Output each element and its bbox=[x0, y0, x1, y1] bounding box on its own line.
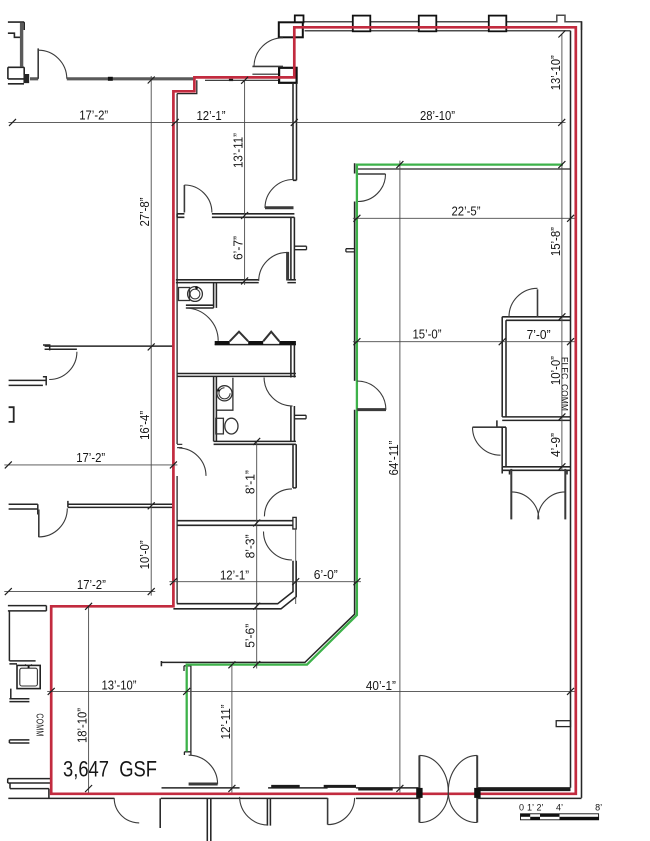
partition wall face left of green riser bbox=[161, 163, 354, 666]
bathroom B bottom wall bbox=[214, 441, 296, 444]
svg-text:13’-10”: 13’-10” bbox=[102, 678, 137, 693]
svg-text:4’-9”: 4’-9” bbox=[548, 433, 563, 457]
dim row1 line 17-2 / 12-1 / 28-10 bbox=[9, 121, 566, 123]
door G1 arc bbox=[358, 174, 386, 202]
svg-text:4’: 4’ bbox=[556, 803, 563, 813]
elec door arc bbox=[509, 288, 538, 317]
dim row3a line 12-1 / 6-0 bbox=[169, 581, 361, 583]
butterfly arc top-left bbox=[419, 755, 448, 791]
room 4-9 bottom wall bbox=[502, 467, 570, 475]
door G2 arc bbox=[357, 381, 386, 410]
column bracket mid-left bbox=[9, 407, 14, 422]
door left-room2 leaf bbox=[38, 510, 40, 538]
svg-text:6’-0”: 6’-0” bbox=[314, 567, 338, 582]
door E leaf bbox=[473, 426, 501, 428]
dim row2 line 17-2 bbox=[4, 464, 177, 466]
wall right of bathrooms bbox=[291, 345, 295, 442]
dim col 64-11 chain bbox=[399, 161, 401, 793]
svg-text:17’-2”: 17’-2” bbox=[76, 450, 105, 465]
dim col 13-11 6-7 chain bbox=[244, 80, 246, 285]
elec room top wall bbox=[502, 317, 570, 324]
tee stub right y247 bbox=[294, 246, 306, 250]
door C jamb bbox=[177, 444, 182, 447]
green stub wall black faces bbox=[184, 666, 191, 756]
butterfly door right leaf bbox=[476, 755, 478, 822]
wall H2 room1 bottom bbox=[177, 214, 294, 218]
svg-text:7’-0”: 7’-0” bbox=[527, 327, 551, 342]
left wall y505 segment a bbox=[9, 504, 38, 514]
dim row3b line 17-2 bbox=[4, 591, 155, 593]
svg-text:18’-10”: 18’-10” bbox=[75, 708, 90, 743]
svg-text:1’: 1’ bbox=[527, 803, 534, 813]
bifold chevron left bbox=[230, 332, 249, 342]
green stub door arc bbox=[189, 755, 218, 784]
bifold chevron right bbox=[263, 332, 279, 342]
double door F right leaf bbox=[564, 469, 566, 520]
wall right of room D lower with chamfer bbox=[173, 561, 296, 609]
closet jamb blocks bbox=[215, 341, 296, 345]
neighbor wall stub y741 bbox=[9, 740, 29, 743]
toilet B bowl bbox=[225, 418, 238, 434]
svg-text:ELEC COMM: ELEC COMM bbox=[558, 357, 569, 411]
left room lower wall y383 bbox=[9, 377, 47, 386]
scale bar outline bbox=[521, 814, 599, 820]
door room2-bottom leaf bbox=[286, 252, 289, 281]
left bottom wall y780 bbox=[8, 779, 51, 783]
svg-text:13’-11”: 13’-11” bbox=[231, 133, 246, 168]
bathroom B left wall bbox=[214, 376, 217, 441]
top window wall outer line bbox=[295, 15, 582, 30]
svg-text:13’-10”: 13’-10” bbox=[548, 55, 563, 90]
left wall y505 segment b bbox=[68, 501, 173, 508]
door U arc bbox=[265, 180, 294, 209]
wall face under green top run bbox=[357, 168, 570, 170]
butterfly hinge jamb left bbox=[416, 788, 422, 798]
svg-text:27’-8”: 27’-8” bbox=[137, 198, 152, 227]
pilaster column face bbox=[20, 23, 23, 66]
tee stub right y417 bbox=[294, 415, 306, 419]
door U leaf room2 bbox=[265, 206, 294, 209]
svg-text:12’-1”: 12’-1” bbox=[197, 108, 226, 123]
red lease boundary outline bbox=[51, 27, 576, 794]
svg-text:12’-1”: 12’-1” bbox=[220, 567, 249, 582]
sink B dot bbox=[217, 389, 219, 391]
butterfly arc top-right bbox=[448, 755, 477, 791]
dimension tick marks bbox=[5, 31, 574, 793]
butterfly hinge jamb right bbox=[474, 788, 480, 798]
sink B counter bbox=[216, 378, 233, 411]
svg-text:3,647 GSF: 3,647 GSF bbox=[63, 757, 157, 782]
dim row 22-5 line bbox=[353, 217, 575, 219]
neighbor wall x10 sink run bbox=[9, 689, 29, 702]
door G1 leaf at partition top bbox=[358, 173, 386, 175]
door G2 leaf bbox=[357, 408, 386, 411]
entry door lower jamb bbox=[279, 68, 297, 83]
toilet B tank bbox=[216, 418, 224, 434]
wall H3 room2 bottom bbox=[176, 280, 296, 283]
bottom exterior wall outer line bbox=[8, 797, 581, 799]
elec room mid wall bbox=[502, 417, 570, 421]
mop sink COMM room bbox=[17, 665, 40, 688]
thin wall face below red top-mid wall bbox=[205, 74, 293, 80]
svg-text:2’: 2’ bbox=[536, 803, 543, 813]
window mullion 1 bbox=[353, 16, 371, 32]
bottom door 3 arc bbox=[328, 798, 355, 825]
door D2 arc bbox=[264, 532, 293, 561]
door strike tick near entry bbox=[229, 79, 233, 81]
svg-text:COMM: COMM bbox=[34, 713, 45, 736]
door top-left exterior leaf bbox=[37, 48, 39, 78]
right exterior wall inner line bbox=[570, 31, 572, 788]
door left-room arc bbox=[49, 352, 77, 380]
closet wall with bifold chevrons bbox=[215, 344, 296, 346]
double door F right arc bbox=[538, 492, 566, 520]
dim row 15-0 / 7-0 line bbox=[353, 341, 575, 343]
toilet room A right wall bbox=[214, 283, 217, 308]
left exterior wall y607 bbox=[8, 606, 47, 611]
dim col 8-1 8-3 5-6 chain bbox=[256, 441, 258, 668]
door room1 arc bbox=[184, 185, 212, 213]
svg-text:12’-11”: 12’-11” bbox=[218, 704, 233, 739]
svg-text:8’-3”: 8’-3” bbox=[243, 534, 258, 558]
elec door jamb step bbox=[497, 420, 506, 427]
right wall blocking stub bbox=[556, 721, 570, 727]
room 4-9 left wall bbox=[502, 427, 506, 467]
dim col 18-10 chain bbox=[88, 606, 90, 792]
entry door arc bbox=[254, 38, 283, 67]
svg-text:8’: 8’ bbox=[595, 803, 602, 813]
walls below bottom wall bbox=[160, 798, 270, 841]
door room1 leaf bbox=[183, 185, 185, 213]
svg-text:15’-8”: 15’-8” bbox=[548, 227, 563, 256]
wall H8 end cap bbox=[293, 517, 296, 529]
svg-text:22’-5”: 22’-5” bbox=[452, 203, 481, 218]
double door F left leaf bbox=[510, 469, 512, 520]
svg-text:64’-11”: 64’-11” bbox=[386, 441, 401, 476]
black companion inside red jog bbox=[177, 80, 197, 93]
window mullion corner post bbox=[295, 15, 304, 22]
wall right of room D upper bbox=[293, 444, 296, 488]
left wall face along red bbox=[176, 94, 178, 604]
top wall left section (gray) bbox=[30, 77, 194, 80]
door left-room2 arc bbox=[39, 508, 68, 537]
svg-text:15’-0”: 15’-0” bbox=[413, 327, 442, 342]
bottom wall header segments bbox=[271, 786, 570, 789]
double door F left arc bbox=[511, 492, 539, 520]
svg-text:28’-10”: 28’-10” bbox=[420, 108, 455, 123]
dim col 12-11 chain bbox=[231, 665, 233, 793]
door toilet-room arc bbox=[186, 308, 218, 341]
wall right of room2 bbox=[291, 217, 295, 280]
window mullion 2 bbox=[419, 16, 437, 32]
dim col left chain 27-8 16-4 10-0 bbox=[150, 76, 152, 596]
sink B bowl bbox=[217, 386, 232, 401]
green stub door leaf bbox=[189, 783, 218, 786]
wall below entry door bbox=[293, 83, 297, 181]
svg-text:40’-1”: 40’-1” bbox=[366, 678, 396, 693]
bottom exterior wall inner line bbox=[162, 787, 571, 789]
elec door leaf bbox=[537, 289, 539, 317]
window mullion 3 bbox=[489, 16, 507, 32]
dim row4 line 13-10 / 40-1 bbox=[47, 690, 574, 692]
svg-text:17’-2”: 17’-2” bbox=[79, 108, 108, 123]
bottom-left room wall y788 bbox=[10, 783, 49, 798]
butterfly arc bottom-right bbox=[448, 792, 477, 823]
door top-left exterior arc bbox=[38, 50, 67, 79]
bottom door 2 arc bbox=[240, 797, 269, 825]
toilet A flush dot bbox=[195, 286, 198, 289]
svg-text:16’-4”: 16’-4” bbox=[137, 411, 152, 440]
toilet A bowl circle bbox=[188, 287, 203, 302]
wall H8 between 8-1 and 8-3 bbox=[177, 521, 293, 526]
door room2-bottom arc bbox=[259, 252, 288, 281]
bathroom B top wall bbox=[177, 374, 296, 377]
svg-text:0: 0 bbox=[519, 803, 524, 813]
wall joint tick on top wall bbox=[108, 77, 113, 81]
svg-text:17’-2”: 17’-2” bbox=[77, 577, 106, 592]
elec room left wall bbox=[502, 324, 506, 417]
door E arc bbox=[473, 427, 501, 455]
toilet A tank bbox=[179, 288, 190, 301]
neighbor wall x9 upper bbox=[9, 611, 35, 664]
ext line for 12-1 6-0 boundary bbox=[295, 529, 297, 604]
wall outlet stub on partition bbox=[346, 249, 355, 252]
door B1 arc bbox=[264, 378, 293, 407]
door D1 arc bbox=[264, 489, 292, 517]
entry door upper jamb bbox=[279, 22, 303, 37]
svg-text:8’-1”: 8’-1” bbox=[243, 470, 258, 494]
top window wall inner line bbox=[305, 30, 571, 32]
right exterior wall outer line bbox=[581, 22, 583, 798]
dim col right chain 13-10 15-8 10-0 4-9 bbox=[561, 34, 563, 471]
butterfly arc bottom-left bbox=[419, 792, 448, 823]
left room upper wall y347 bbox=[43, 345, 173, 350]
door C arc bbox=[179, 448, 206, 476]
green demising line bbox=[187, 165, 563, 752]
butterfly door left leaf bbox=[418, 755, 420, 822]
toilet room A bottom wall bbox=[186, 305, 214, 308]
bottom door 3 leaf bbox=[327, 798, 329, 825]
svg-text:10’-0”: 10’-0” bbox=[137, 540, 152, 569]
svg-text:6’-7”: 6’-7” bbox=[231, 236, 246, 260]
svg-text:5’-6”: 5’-6” bbox=[243, 624, 258, 648]
exterior wall top-left pilaster bbox=[8, 22, 24, 67]
bottom door 1 arc bbox=[114, 798, 139, 823]
door jamb at top-left door bbox=[24, 75, 28, 83]
wall block below pilaster bbox=[8, 67, 24, 84]
entry door leaf bbox=[252, 65, 283, 67]
